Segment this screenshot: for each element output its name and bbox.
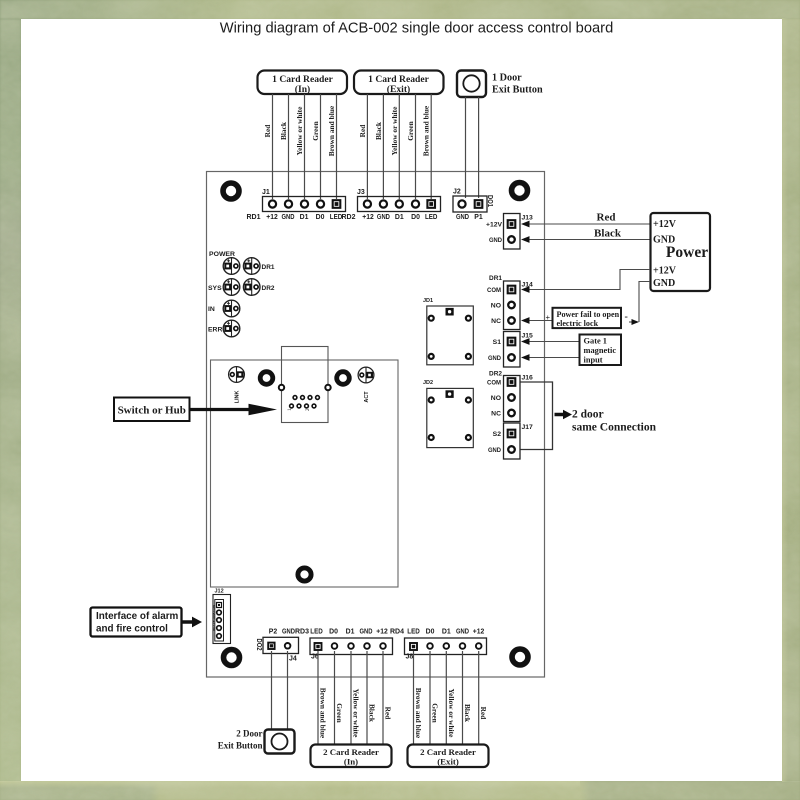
svg-text:J17: J17 [522, 424, 534, 431]
svg-text:Power: Power [666, 244, 708, 261]
svg-text:LED: LED [407, 629, 420, 636]
svg-text:+12: +12 [266, 214, 278, 221]
svg-text:Black: Black [463, 704, 472, 723]
mounting hole top-right [512, 183, 528, 199]
svg-text:NC: NC [491, 318, 501, 325]
svg-text:IN: IN [208, 306, 215, 313]
wires J4 to exit button [272, 651, 288, 730]
svg-text:GND: GND [360, 629, 373, 636]
svg-text:Yellow or white: Yellow or white [447, 689, 456, 738]
connector J1 [262, 189, 346, 212]
arrow J14 COM [521, 286, 530, 293]
svg-text:ERR: ERR [208, 327, 222, 334]
svg-text:JD2: JD2 [423, 380, 433, 386]
svg-text:Yellow or white: Yellow or white [352, 689, 361, 738]
svg-text:NO: NO [491, 395, 501, 402]
module mounting hole left [260, 372, 273, 385]
PCB board outline [207, 172, 545, 678]
svg-text:input: input [584, 356, 603, 365]
svg-text:Wiring diagram of ACB-002 sing: Wiring diagram of ACB-002 single door ac… [220, 21, 614, 37]
bottom wire labels J8 [414, 688, 488, 739]
LED ERR [208, 320, 240, 337]
svg-text:DR1: DR1 [262, 264, 275, 271]
svg-text:and fire control: and fire control [96, 624, 168, 635]
svg-text:Switch or Hub: Switch or Hub [118, 405, 186, 417]
svg-text:DR2: DR2 [262, 285, 275, 292]
svg-text:GND: GND [282, 629, 295, 636]
2 door same Connection text [572, 409, 657, 434]
svg-text:COM: COM [487, 380, 501, 387]
LED LINK [229, 367, 245, 404]
svg-text:same Connection: same Connection [572, 422, 657, 434]
svg-text:Gate 1: Gate 1 [584, 337, 608, 346]
svg-text:P1: P1 [474, 214, 483, 221]
svg-text:LED: LED [310, 629, 323, 636]
svg-text:2 door: 2 door [572, 409, 604, 421]
network module outline [211, 360, 399, 587]
arrow J15 GND [521, 354, 530, 361]
svg-text:LED: LED [425, 214, 438, 221]
svg-text:Green: Green [311, 121, 320, 141]
lock box [546, 308, 628, 328]
module mounting hole right [337, 372, 350, 385]
svg-text:J4: J4 [289, 656, 297, 663]
mounting hole bottom-right [512, 649, 528, 665]
svg-text:D1: D1 [300, 214, 309, 221]
arrow to RJ45 [190, 404, 278, 416]
wire Red [530, 212, 651, 225]
svg-text:ACT: ACT [364, 391, 370, 403]
svg-text:Yellow or white: Yellow or white [295, 106, 304, 155]
svg-text:LED: LED [330, 214, 343, 221]
svg-text:Brown and blue: Brown and blue [422, 105, 431, 156]
connector J2 [453, 189, 493, 222]
wires reader1 to J1 [273, 94, 337, 199]
box: 1 Card Reader (In) [258, 71, 348, 96]
svg-text:GND: GND [489, 237, 502, 244]
wire lock minus arrow [629, 319, 639, 325]
LED IN [208, 300, 240, 317]
svg-text:Brown and blue: Brown and blue [414, 688, 423, 739]
svg-text:J1: J1 [262, 189, 270, 196]
svg-text:+12: +12 [473, 629, 485, 636]
svg-text:Exit Button: Exit Button [492, 85, 543, 96]
svg-text:Red: Red [597, 212, 616, 224]
wire GND down [639, 282, 650, 323]
svg-text:-: - [625, 312, 628, 323]
connector J12 [212, 589, 231, 644]
svg-text:DO1: DO1 [486, 195, 493, 207]
svg-text:(Exit): (Exit) [437, 757, 459, 767]
svg-text:Green: Green [406, 121, 415, 141]
wire GND to gate box [530, 357, 580, 359]
wires J8 to card reader exit [414, 651, 479, 745]
svg-text:Green: Green [335, 703, 344, 723]
svg-text:RD3: RD3 [295, 627, 309, 636]
svg-text:(In): (In) [295, 84, 310, 95]
1 Door Exit Button [457, 71, 543, 98]
svg-text:POWER: POWER [209, 251, 235, 258]
svg-text:Black: Black [594, 228, 622, 240]
Switch or Hub box [114, 398, 190, 422]
svg-text:+: + [546, 314, 551, 323]
svg-text:COM: COM [487, 287, 501, 294]
svg-text:Black: Black [374, 121, 383, 140]
Power supply box [651, 213, 711, 291]
svg-text:Red: Red [358, 124, 367, 138]
wire S1 to gate box [530, 341, 580, 343]
svg-text:2 Door: 2 Door [236, 729, 262, 739]
svg-text:S1: S1 [493, 339, 502, 346]
svg-text:RD2: RD2 [342, 212, 356, 221]
svg-text:P2: P2 [269, 629, 278, 636]
svg-text:D0: D0 [411, 214, 420, 221]
svg-text:Red: Red [384, 707, 393, 721]
LED ACT [358, 367, 374, 403]
svg-text:LINK: LINK [235, 391, 241, 404]
bracket wire J16 COM to J17 GND [521, 382, 553, 450]
2 Door Exit Button [218, 729, 295, 754]
svg-text:2 Card Reader: 2 Card Reader [323, 747, 379, 757]
svg-text:SYS: SYS [208, 285, 222, 292]
wires J6 to card reader in [318, 651, 383, 745]
LED POWER [209, 251, 240, 274]
svg-text:GND: GND [282, 214, 295, 221]
svg-text:GND: GND [456, 214, 469, 221]
svg-text:Black: Black [368, 704, 377, 723]
svg-text:Power fail to open: Power fail to open [557, 310, 620, 319]
wires reader2 to J3 [367, 94, 431, 199]
relay JD2 [423, 380, 473, 448]
box 2 Card Reader (In) [311, 745, 392, 768]
2 door same connection arrow [555, 410, 573, 420]
box: 1 Card Reader (Exit) [354, 71, 444, 96]
connector J17 [488, 423, 533, 459]
svg-text:GND: GND [456, 629, 469, 636]
svg-text:GND: GND [377, 214, 390, 221]
svg-text:Green: Green [431, 703, 440, 723]
RJ45 jack [279, 347, 331, 423]
relay JD1 [423, 298, 473, 365]
svg-text:J12: J12 [215, 589, 224, 595]
svg-text:DR1: DR1 [489, 275, 502, 282]
svg-text:NO GND +12 IN: NO GND +12 IN [212, 605, 216, 631]
svg-text:1 Door: 1 Door [492, 73, 522, 84]
svg-text:RD1: RD1 [247, 212, 261, 221]
svg-text:Exit Button: Exit Button [218, 741, 263, 751]
svg-text:D1: D1 [395, 214, 404, 221]
svg-text:Yellow or white: Yellow or white [390, 106, 399, 155]
svg-text:+12: +12 [376, 629, 388, 636]
arrow J14 NC [521, 317, 530, 324]
svg-text:J8: J8 [406, 654, 414, 661]
arrow J13 GND [521, 236, 530, 243]
svg-text:J2: J2 [453, 189, 461, 196]
Interface of alarm box [91, 608, 182, 637]
svg-text:2 Card Reader: 2 Card Reader [420, 747, 476, 757]
svg-text:magnetic: magnetic [584, 346, 617, 355]
svg-text:GND: GND [488, 447, 501, 454]
svg-text:J13: J13 [522, 215, 534, 222]
connector J6 [310, 638, 393, 661]
svg-text:Black: Black [279, 121, 288, 140]
svg-text:DR2: DR2 [489, 371, 502, 378]
svg-text:D1: D1 [346, 629, 355, 636]
arrow J15 S1 [521, 338, 530, 345]
gate magnetic box [580, 335, 622, 366]
LED DR1 [243, 258, 274, 275]
DR1 label [489, 275, 502, 282]
DR2 label [489, 371, 502, 378]
LED DR2 indicator [243, 279, 274, 296]
svg-text:NO: NO [491, 303, 501, 310]
connector J13 [486, 214, 533, 250]
title [220, 21, 614, 37]
svg-text:D0: D0 [426, 629, 435, 636]
LED SYS [208, 279, 240, 296]
connector J16 [487, 375, 533, 422]
wire +12V to COM [530, 270, 651, 290]
svg-text:NC: NC [491, 411, 501, 418]
mounting hole top-left [223, 183, 239, 199]
svg-text:J16: J16 [522, 375, 534, 382]
wires exit button to J2 [466, 97, 479, 198]
svg-text:D0: D0 [329, 629, 338, 636]
connector J14 [487, 281, 533, 330]
svg-text:RD4: RD4 [390, 627, 404, 636]
svg-text:+12V: +12V [653, 266, 677, 277]
svg-text:(In): (In) [344, 757, 358, 767]
svg-text:D1: D1 [442, 629, 451, 636]
mounting hole bottom-left [224, 650, 240, 666]
svg-text:+12V: +12V [653, 219, 677, 230]
svg-text:Brown and blue: Brown and blue [327, 105, 336, 156]
wire Black [530, 228, 651, 240]
svg-text:Brown and blue: Brown and blue [319, 688, 328, 739]
connector J3 [357, 189, 441, 212]
connector J8 [405, 638, 487, 661]
arrow J13 +12V [521, 221, 530, 228]
svg-text:Interface of alarm: Interface of alarm [96, 611, 179, 622]
DO2 rotated label [255, 639, 262, 651]
module bottom mounting hole [298, 568, 311, 581]
J1 pin labels [247, 212, 343, 221]
svg-text:Red: Red [263, 124, 272, 138]
svg-text:J15: J15 [522, 333, 534, 340]
box 2 Card Reader (Exit) [408, 745, 489, 768]
wire color labels reader1 [263, 105, 336, 156]
svg-text:GND: GND [653, 278, 675, 289]
svg-text:+12: +12 [362, 214, 374, 221]
svg-text:Red: Red [479, 707, 488, 721]
bottom pin label row [269, 627, 485, 636]
bottom wire labels J6 [319, 688, 393, 739]
connector J15 [488, 332, 533, 368]
svg-text:(Exit): (Exit) [387, 84, 410, 95]
svg-text:D0: D0 [316, 214, 325, 221]
svg-text:JD1: JD1 [423, 298, 433, 304]
J3 pin labels [342, 212, 438, 221]
wire NC to lock [530, 320, 553, 322]
connector J4 [263, 637, 299, 662]
wire color labels reader2 [358, 105, 431, 156]
svg-text:J3: J3 [357, 189, 365, 196]
svg-text:DO2: DO2 [255, 639, 262, 651]
svg-text:S2: S2 [493, 431, 502, 438]
svg-text:GND: GND [488, 355, 501, 362]
svg-text:+12V: +12V [486, 222, 502, 229]
arrow to J12 [182, 617, 203, 628]
svg-text:electric lock: electric lock [557, 319, 599, 328]
